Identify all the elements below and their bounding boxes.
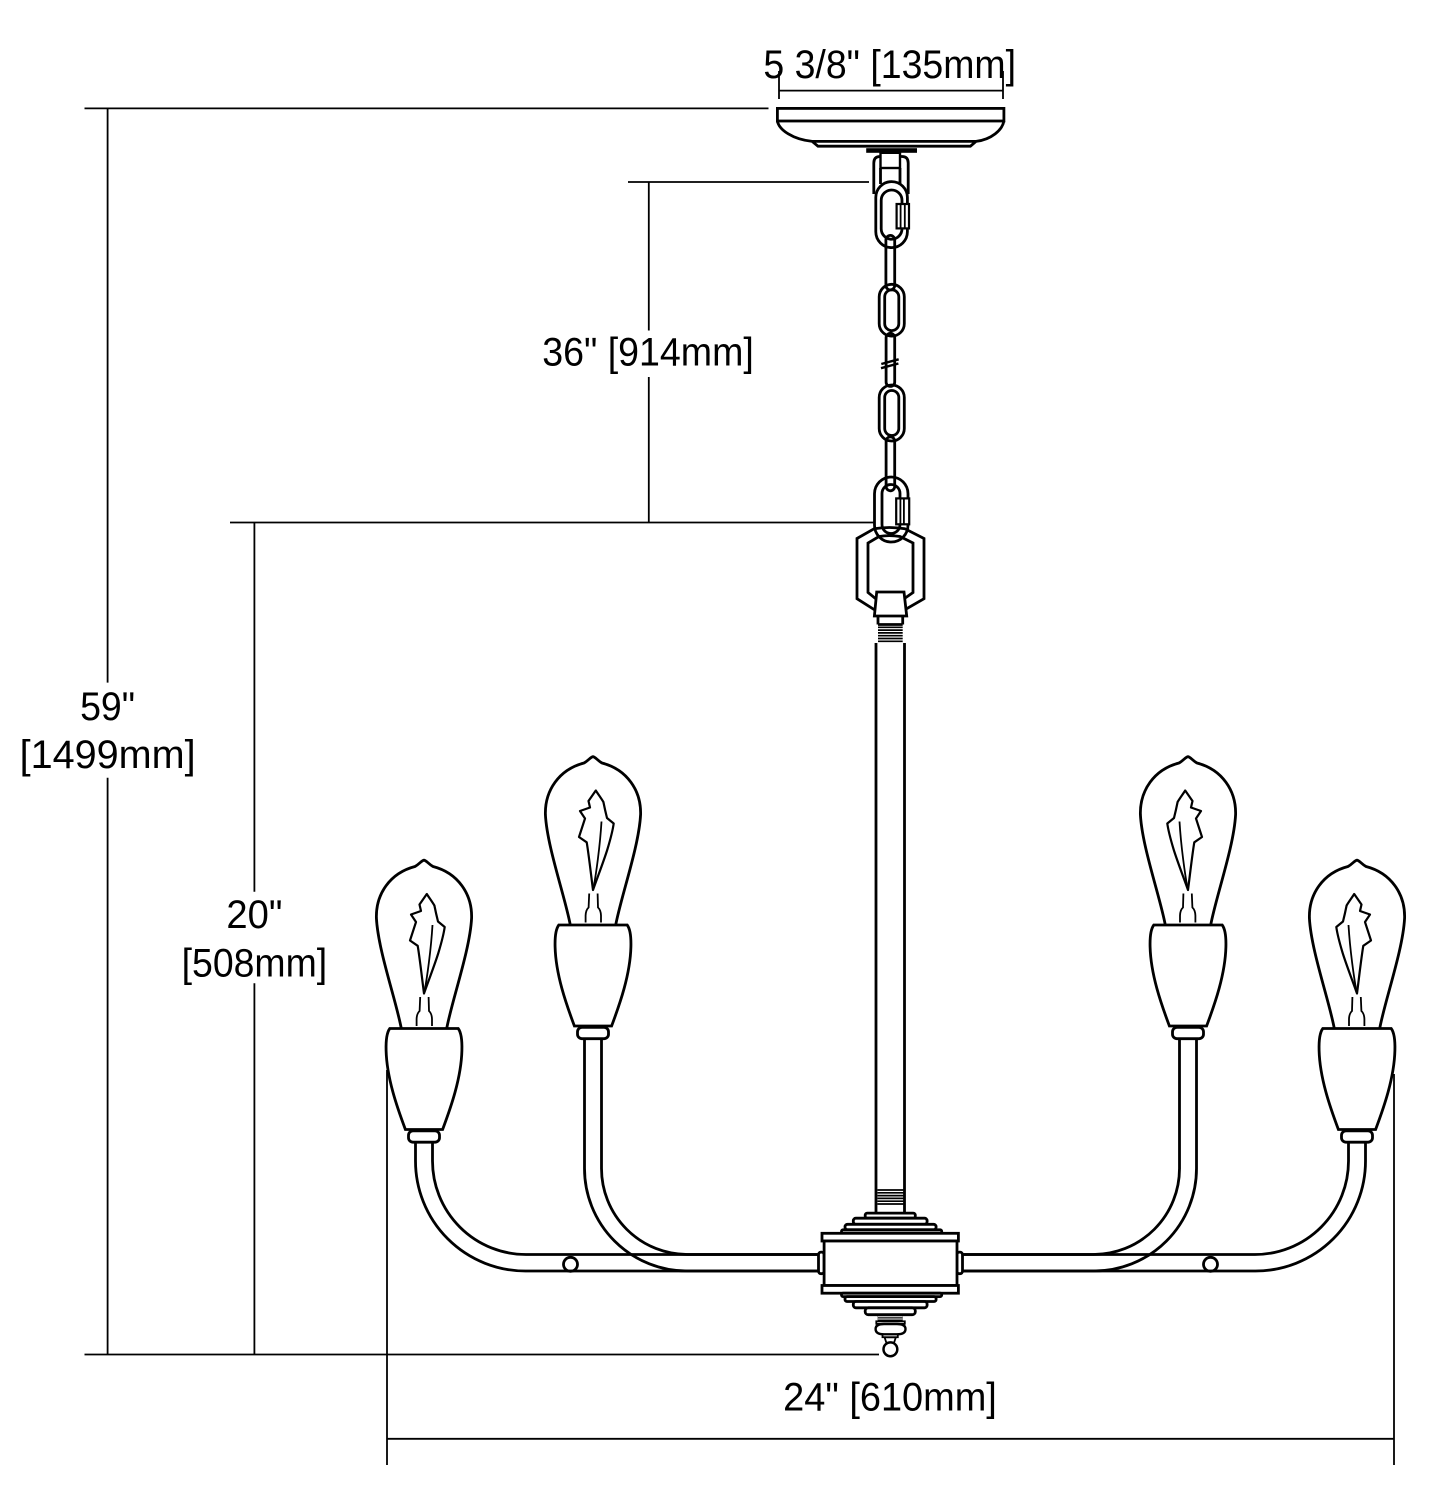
dimension line 59in overall height	[107, 108, 109, 1354]
dimension line 20in fixture height	[253, 523, 255, 1355]
finial ball	[884, 1342, 898, 1356]
bulb far-right	[1309, 860, 1404, 1142]
bulb inner-left	[545, 757, 640, 1039]
dimension line 36in chain	[648, 182, 650, 523]
dimension line 24in width	[387, 1438, 1394, 1440]
bulb inner-right	[1140, 757, 1235, 1039]
chain break marks	[881, 359, 899, 368]
stem ferrule	[874, 592, 906, 616]
extension line right edge (24in)	[1393, 1074, 1395, 1465]
quick link top	[876, 182, 908, 248]
canopy bell flare	[777, 121, 1004, 146]
hex swivel loop outer	[857, 528, 924, 613]
canopy nut bar	[866, 148, 917, 153]
svg-text:20": 20"	[226, 893, 282, 937]
arm far-left tube	[416, 1142, 821, 1271]
body cap disc 2	[853, 1218, 927, 1224]
body top flange	[822, 1233, 958, 1241]
threaded nipple bottom	[878, 1190, 904, 1204]
screw head on left arm	[564, 1257, 578, 1271]
body drum	[824, 1241, 957, 1286]
body base disc 4	[842, 1293, 942, 1296]
body base disc 3	[845, 1297, 936, 1302]
finial knob	[876, 1324, 906, 1334]
arm inner-left tube	[585, 1039, 821, 1272]
svg-text:24" [610mm]: 24" [610mm]	[783, 1376, 997, 1420]
quick link top screw sleeve	[897, 204, 909, 228]
finial collar	[883, 1335, 898, 1338]
arm boss tab left	[819, 1252, 825, 1274]
extension line bottom of chain / top of fixture body (36in/20in)	[230, 522, 874, 524]
arm boss tab right	[957, 1252, 963, 1274]
finial threaded collar	[878, 1315, 903, 1321]
finial top band	[876, 1321, 905, 1324]
threaded nipple top	[878, 627, 903, 641]
svg-text:36" [914mm]: 36" [914mm]	[542, 330, 754, 374]
body cap disc 1	[865, 1213, 915, 1218]
svg-text:[1499mm]: [1499mm]	[20, 733, 196, 777]
body cap disc 3	[845, 1224, 936, 1230]
chain link 1 (edge-on)	[886, 235, 895, 290]
chain link 3 (edge-on)	[886, 333, 895, 386]
svg-text:5 3/8" [135mm]: 5 3/8" [135mm]	[763, 43, 1016, 87]
body base disc 1	[865, 1308, 915, 1315]
bulb far-left	[376, 860, 471, 1142]
stem collar band	[878, 616, 903, 625]
swivel clevis	[874, 157, 908, 195]
finial neck	[885, 1337, 896, 1343]
svg-text:59": 59"	[80, 685, 135, 729]
svg-text:[508mm]: [508mm]	[182, 942, 328, 986]
chain link 2 (face-on)	[879, 284, 904, 336]
extension line bottom tip of fixture	[85, 1354, 880, 1356]
quick link bottom	[875, 477, 909, 542]
body cap disc 4	[842, 1230, 942, 1234]
hanger stud	[881, 153, 901, 168]
chain link 5 (edge-on)	[886, 437, 895, 491]
arm far-right tube	[961, 1142, 1366, 1271]
body bottom flange	[822, 1286, 958, 1294]
chain link 4 (face-on)	[879, 385, 904, 441]
ceiling canopy band	[777, 108, 1004, 121]
extension line top of fixture (59in)	[85, 107, 769, 109]
dimension line 5-3/8in canopy width	[779, 71, 1003, 99]
screw head on right arm	[1204, 1257, 1218, 1271]
body base disc 2	[853, 1302, 927, 1308]
stem tube	[876, 643, 905, 1213]
hex swivel loop inner	[868, 536, 913, 603]
extension line top of chain (36in)	[628, 181, 869, 183]
clevis slot lines	[881, 168, 901, 184]
arm inner-right tube	[961, 1039, 1197, 1272]
quick link bottom screw sleeve	[896, 498, 909, 524]
extension line left edge (24in)	[386, 1070, 388, 1465]
